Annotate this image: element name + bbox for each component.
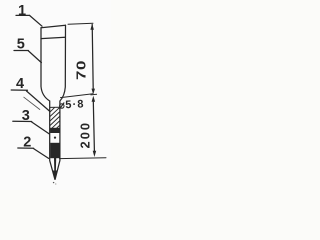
- svg-text:70: 70: [75, 60, 88, 80]
- svg-text:1: 1: [18, 3, 26, 19]
- svg-text:4: 4: [16, 76, 24, 92]
- svg-text:2: 2: [23, 135, 31, 151]
- svg-text:5·8: 5·8: [65, 98, 85, 111]
- svg-text:3: 3: [22, 108, 30, 124]
- svg-text:5: 5: [17, 37, 25, 53]
- svg-text:200: 200: [79, 121, 93, 149]
